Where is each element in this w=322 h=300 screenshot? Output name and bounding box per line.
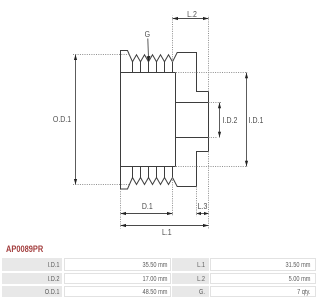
svg-text:O.D.1: O.D.1 [53,114,71,124]
L.2 arrows [173,17,179,20]
D.1 dimension line [121,213,173,215]
L.3 left extension [196,187,198,217]
O.D.1 top extension [73,54,130,56]
svg-text:L.3: L.3 [198,201,208,211]
O.D.1 dimension line [75,55,77,185]
svg-text:L.1: L.1 [162,227,172,237]
arrowheads [74,17,248,227]
I.D.2 dimension line [219,103,221,138]
L.3 arrows [197,212,202,215]
rim base line top [121,72,176,74]
L.1 right extension [208,152,210,229]
G leader line [147,39,150,59]
svg-text:I.D.2: I.D.2 [223,115,238,125]
I.D.2 top extension [209,102,222,104]
D.1 right extension [172,178,174,217]
L.2 dimension line [173,18,209,20]
D.1 / L.1 left extension [120,189,122,229]
table row 2 [2,273,62,284]
pulley outline profile [121,51,209,190]
L.1 dimension line [121,225,209,227]
svg-text:D.1: D.1 [142,201,153,211]
O.D.1 arrows [74,55,77,61]
rim base line bottom [121,166,176,168]
svg-text:G: G [145,29,150,39]
I.D.1 bottom extension [176,166,248,168]
top groove valley verticals [133,62,173,73]
bottom groove valley verticals [133,167,173,178]
D.1 arrows [121,212,127,215]
I.D.2 bottom extension [209,137,217,139]
I.D.2 arrows [218,103,221,109]
table row 1 [2,258,62,271]
svg-text:I.D.1: I.D.1 [249,115,264,125]
I.D.1 top extension [176,72,248,74]
I.D.1 dimension line [246,73,248,167]
svg-text:L.2: L.2 [187,9,197,19]
bore line bottom [176,137,209,139]
L.1 arrows [121,224,127,227]
product code [6,244,43,254]
drawing labels [53,9,263,237]
L.2 right extension [208,16,210,92]
L.2 left extension [172,16,174,62]
extension (dotted) lines [73,16,248,229]
table row 3 [2,286,62,297]
G arrowhead [147,56,151,62]
I.D.1 arrows [245,73,248,79]
O.D.1 bottom extension [73,184,129,186]
dimension lines [76,19,247,226]
L.3 dimension line [197,213,209,215]
web right face [175,73,177,167]
bore line top [176,102,209,104]
